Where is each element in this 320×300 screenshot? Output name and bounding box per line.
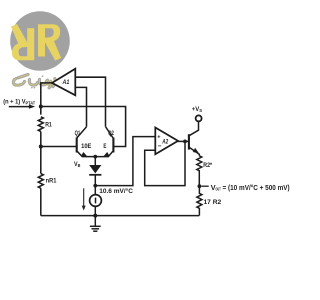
wire Q1 base [41,146,77,148]
svg-text:R2*: R2* [203,162,212,169]
logo persian text [13,75,55,88]
logo letter R left (rotated 180) [11,24,34,60]
wire feedback loop [145,141,185,185]
wire diode node to A2 plus input [95,137,155,186]
node VOUT [198,184,202,188]
resistor R2* [197,156,202,186]
watermark logo circle [10,11,70,88]
transistor Q2 [95,127,113,157]
node diode bottom [93,184,97,188]
node VB junction [93,155,97,159]
wire R1 to nR1 [40,132,42,174]
wire VOUT stub [201,185,208,187]
node n+1 VPTAT [39,105,43,109]
current source I1 [90,186,102,216]
wire bottom rail [41,215,200,217]
ground [90,216,101,232]
wire emitter node to diode [94,157,96,165]
node bottom rail [93,214,97,218]
svg-text:−: − [158,143,162,150]
svg-text:VB: VB [74,161,81,168]
wire A1 bottom input to Q1 collector [75,87,86,126]
svg-text:10E: 10E [81,143,92,150]
node A2 output [183,140,187,144]
svg-text:A2: A2 [162,140,169,146]
wire node to Q2 base column [41,107,126,147]
resistor nR1 [38,174,43,189]
diode D1 [89,165,101,186]
wire A1 top input to Q2 collector [75,77,105,127]
svg-text:R1: R1 [45,122,52,129]
svg-text:Q2: Q2 [108,130,114,137]
terminal +VS [196,115,202,121]
resistor 17R2 [197,186,202,215]
node R1 nR1 junction [39,145,43,149]
wire nR1 to bottom rail [40,188,42,215]
svg-text:10.6 mV/°C: 10.6 mV/°C [99,187,133,195]
svg-text:= (10 mV/°C + 500 mV): = (10 mV/°C + 500 mV) [223,184,290,192]
current direction arrow [82,188,86,210]
input arrow [9,104,35,108]
wire A2 output to Q3 base [178,140,189,142]
op-amp A2 [155,128,178,155]
svg-text:A1: A1 [62,79,70,86]
svg-text:17 R2: 17 R2 [204,199,222,206]
transistor Q3 [189,122,199,156]
transistor Q1 [77,127,96,157]
svg-text:Q1: Q1 [75,130,81,137]
svg-text:+VS: +VS [192,107,202,113]
svg-text:E: E [103,143,107,150]
logo letter R right [38,24,61,60]
wire A1 output to left rail [41,83,52,115]
resistor R1 [38,117,43,132]
svg-text:OUT: OUT [216,187,221,192]
svg-text:nR1: nR1 [46,177,57,184]
op-amp A1 [52,69,75,96]
svg-text:(n + 1) VPTAT: (n + 1) VPTAT [3,99,35,106]
